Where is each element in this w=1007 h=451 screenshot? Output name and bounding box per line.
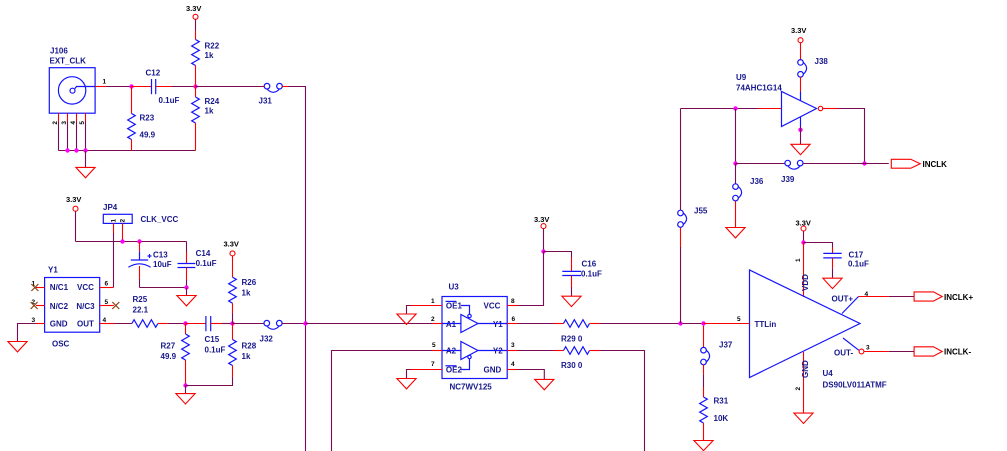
- ground (J36): [726, 228, 745, 238]
- buffer triangle 2: [461, 342, 478, 360]
- no-connect X pin1: [31, 284, 38, 291]
- svg-text:J36: J36: [750, 177, 764, 186]
- resistor R31 10K: [700, 387, 729, 441]
- svg-text:J32: J32: [260, 335, 274, 344]
- ground (OE2): [397, 379, 416, 389]
- node G junction (R25 out): [183, 321, 187, 325]
- svg-text:8: 8: [511, 298, 515, 305]
- svg-text:GND: GND: [484, 366, 502, 375]
- no-connect X pin2: [31, 302, 38, 309]
- power 3.3V (U9): [791, 26, 806, 60]
- svg-text:10K: 10K: [714, 414, 729, 423]
- svg-text:3: 3: [511, 342, 515, 349]
- svg-text:2: 2: [431, 316, 435, 323]
- svg-text:C17: C17: [849, 250, 864, 259]
- svg-text:R26: R26: [242, 278, 257, 287]
- svg-text:J37: J37: [719, 341, 733, 350]
- buffer U3 NC7WV125: [410, 283, 518, 392]
- pin U4 GND (pin2): [795, 352, 810, 413]
- svg-text:6: 6: [105, 281, 109, 288]
- node J junction: [678, 321, 682, 325]
- ground (U3 GND): [535, 379, 554, 389]
- power 3.3V (R26): [224, 240, 239, 256]
- wire left loop riser (node J up to J55): [680, 247, 682, 324]
- svg-text:1: 1: [103, 79, 107, 86]
- no-connect X pin5: [112, 302, 119, 309]
- svg-text:1k: 1k: [242, 288, 251, 297]
- wire A2 loop to bottom edge: [332, 351, 433, 451]
- oscillator Y1 OSC: [32, 266, 115, 349]
- pin stubs: [410, 305, 442, 307]
- jumper header JP4 CLK_VCC: [103, 203, 179, 242]
- svg-text:OUT+: OUT+: [832, 294, 854, 303]
- svg-text:R23: R23: [140, 114, 155, 123]
- ground (C13/C14): [177, 288, 196, 306]
- svg-text:GND: GND: [801, 360, 810, 378]
- svg-text:OUT-: OUT-: [834, 349, 853, 358]
- svg-text:6: 6: [512, 316, 516, 323]
- node P junction: [801, 240, 805, 244]
- svg-text:49.9: 49.9: [140, 131, 156, 140]
- ground (U4): [794, 413, 813, 423]
- output port INCLK: [891, 159, 947, 169]
- wire C13/C14 ground row: [140, 287, 187, 289]
- power 3.3V (R22): [186, 4, 201, 31]
- jumper J36: [733, 164, 764, 228]
- pin U4 TTLin (pin5): [704, 316, 750, 324]
- ground (U9): [791, 144, 810, 154]
- svg-text:U9: U9: [736, 73, 747, 82]
- wire R29 to node J/K: [600, 323, 704, 325]
- output port INCLK-: [889, 347, 972, 357]
- wire U9 input row: [681, 108, 759, 110]
- svg-text:5: 5: [737, 316, 741, 323]
- node junction JP4 pin2: [120, 239, 124, 243]
- svg-text:INCLK: INCLK: [923, 160, 948, 169]
- svg-text:VDD: VDD: [801, 274, 810, 291]
- wire U9 gnd pin: [800, 127, 802, 145]
- jumper J38: [798, 57, 829, 92]
- svg-text:INCLK-: INCLK-: [944, 348, 971, 357]
- node A junction: [129, 84, 133, 88]
- ground (R31): [694, 441, 713, 451]
- svg-text:NC7WV125: NC7WV125: [450, 383, 493, 392]
- wire OE2 to ground: [407, 370, 411, 379]
- resistor R26 1k: [229, 256, 257, 324]
- svg-text:C12: C12: [146, 69, 161, 78]
- svg-text:A2: A2: [446, 347, 457, 356]
- pin U4 OUT+ (pin4): [832, 291, 889, 314]
- jumper J37: [701, 326, 733, 365]
- svg-text:OE2: OE2: [446, 366, 463, 375]
- svg-text:J31: J31: [259, 97, 273, 106]
- power 3.3V (U3 VCC): [534, 215, 549, 252]
- svg-text:OUT: OUT: [77, 320, 94, 329]
- svg-text:EXT_CLK: EXT_CLK: [50, 57, 87, 66]
- jumper J32: [233, 320, 306, 343]
- resistor R23 49.9: [128, 87, 156, 151]
- resistor R28 1k: [229, 324, 257, 378]
- svg-text:3.3V: 3.3V: [791, 26, 806, 35]
- wire Y1 to R29: [518, 323, 554, 325]
- wire vertical x=305.5 below node C to bottom edge: [305, 324, 307, 451]
- ground (C17): [823, 278, 842, 288]
- svg-text:1k: 1k: [242, 352, 251, 361]
- svg-text:Y1: Y1: [493, 320, 503, 329]
- svg-text:4: 4: [865, 291, 869, 298]
- svg-text:74AHC1G14: 74AHC1G14: [736, 84, 782, 93]
- svg-text:2: 2: [795, 387, 802, 391]
- ground (BNC shield): [76, 151, 95, 178]
- svg-text:4: 4: [511, 361, 515, 368]
- node I junction (R27 bottom): [183, 383, 187, 387]
- node M junction: [733, 106, 737, 110]
- resistor R29 0: [554, 320, 600, 344]
- svg-text:R28: R28: [242, 342, 257, 351]
- svg-text:R29 0: R29 0: [561, 335, 583, 344]
- svg-text:GND: GND: [50, 320, 68, 329]
- capacitor C16 0.1uF: [544, 252, 603, 297]
- svg-text:1: 1: [795, 258, 802, 262]
- node B junction: [193, 84, 197, 88]
- connector J106 EXT_CLK (BNC): [49, 47, 106, 125]
- svg-text:R25: R25: [133, 295, 148, 304]
- wire R30 loop to bottom edge: [600, 351, 645, 451]
- capacitor C13 10uF (polarized): [128, 242, 171, 288]
- output port INCLK+: [889, 292, 974, 302]
- wire U9 output: [823, 109, 865, 164]
- wire J39 row left: [735, 109, 737, 164]
- pin U9 input: [758, 108, 782, 110]
- svg-text:1: 1: [111, 219, 118, 223]
- svg-text:3: 3: [866, 344, 870, 351]
- svg-text:VCC: VCC: [77, 283, 94, 292]
- svg-text:7: 7: [431, 361, 435, 368]
- node H junction: [230, 321, 234, 325]
- svg-text:R22: R22: [205, 42, 220, 51]
- pin U4 VDD (pin1): [795, 243, 810, 298]
- svg-text:U4: U4: [823, 369, 834, 378]
- node C junction (main clock): [303, 321, 307, 325]
- svg-text:OE1: OE1: [446, 301, 463, 310]
- svg-text:0.1uF: 0.1uF: [848, 259, 869, 268]
- svg-text:1: 1: [431, 298, 435, 305]
- wire J37 to R31: [703, 365, 705, 387]
- resistor R27 49.9: [161, 324, 190, 386]
- svg-text:C14: C14: [196, 249, 211, 258]
- wire J55 lower pin: [680, 227, 682, 247]
- node N junction: [862, 161, 866, 165]
- jumper J55: [678, 109, 708, 228]
- svg-text:U3: U3: [449, 283, 460, 292]
- driver U4 DS90LV011ATMF: [750, 270, 887, 390]
- node L junction (VCC branch): [541, 249, 545, 253]
- wire Y2 to R30: [518, 350, 554, 352]
- ground (Y1): [8, 342, 27, 352]
- svg-text:DS90LV011ATMF: DS90LV011ATMF: [823, 381, 887, 390]
- svg-text:2: 2: [120, 219, 127, 223]
- svg-text:1k: 1k: [205, 51, 214, 60]
- jumper J39: [736, 160, 889, 184]
- svg-text:3.3V: 3.3V: [66, 195, 81, 204]
- svg-text:0.1uF: 0.1uF: [196, 259, 217, 268]
- node junction C14 bottom: [184, 285, 188, 289]
- wire Y1 GND to ground: [18, 324, 37, 342]
- svg-text:3.3V: 3.3V: [224, 240, 239, 249]
- svg-text:CLK_VCC: CLK_VCC: [141, 215, 179, 224]
- svg-text:OSC: OSC: [52, 340, 70, 349]
- svg-text:R27: R27: [161, 342, 176, 351]
- svg-text:R30 0: R30 0: [561, 361, 583, 370]
- svg-text:N/C3: N/C3: [76, 302, 95, 311]
- pin U4 OUT- (pin3): [834, 338, 889, 358]
- ground (C16): [562, 296, 581, 306]
- svg-text:3.3V: 3.3V: [534, 215, 549, 224]
- svg-text:10uF: 10uF: [153, 260, 172, 269]
- wire J31 to vertical drop: [288, 87, 306, 324]
- svg-text:22.1: 22.1: [133, 305, 149, 314]
- svg-text:JP4: JP4: [103, 203, 118, 212]
- node K junction: [701, 321, 705, 325]
- svg-text:1k: 1k: [205, 107, 214, 116]
- wire JP4 pin1 to Y1 VCC: [113, 233, 115, 288]
- capacitor C17 0.1uF: [804, 243, 870, 279]
- wire R27 bottom to R28 bottom: [186, 378, 233, 386]
- svg-text:A1: A1: [446, 320, 457, 329]
- capacitor C14 0.1uF: [178, 242, 217, 288]
- svg-text:49.9: 49.9: [161, 352, 177, 361]
- inverter U9 74AHC1G14: [736, 73, 823, 127]
- wire BNC shield pins to ground bus: [59, 122, 196, 153]
- svg-text:Y1: Y1: [48, 266, 58, 275]
- wire GND pin4 to ground: [518, 370, 545, 380]
- svg-text:C15: C15: [205, 335, 220, 344]
- svg-text:J39: J39: [781, 175, 795, 184]
- wire C12 to node B: [172, 86, 196, 88]
- svg-text:VCC: VCC: [484, 301, 501, 310]
- node U9 gnd junction: [798, 128, 802, 132]
- buffer triangle 1: [461, 315, 478, 333]
- wire node C to U3 A1: [306, 323, 433, 325]
- resistor R22 1k: [192, 31, 220, 87]
- svg-text:INCLK+: INCLK+: [944, 293, 973, 302]
- capacitor C12 0.1uF: [132, 69, 180, 106]
- resistor R30 0: [554, 347, 600, 370]
- svg-text:J38: J38: [815, 57, 829, 66]
- svg-text:0.1uF: 0.1uF: [205, 345, 226, 354]
- jumper J31: [196, 83, 289, 105]
- svg-text:TTLin: TTLin: [755, 320, 777, 329]
- svg-text:Y2: Y2: [493, 347, 503, 356]
- ground (R27): [176, 386, 195, 405]
- power 3.3V (U4): [796, 219, 811, 243]
- wire C15 to node H: [222, 323, 233, 325]
- svg-text:3.3V: 3.3V: [186, 4, 201, 13]
- capacitor C15 0.1uF: [186, 316, 226, 354]
- svg-text:0.1uF: 0.1uF: [581, 269, 602, 278]
- wire OE1 to ground: [407, 306, 411, 315]
- svg-text:N/C1: N/C1: [50, 283, 69, 292]
- svg-text:C16: C16: [582, 260, 597, 269]
- wire VCC pin8 riser: [518, 252, 544, 306]
- node O junction: [733, 161, 737, 165]
- svg-text:5: 5: [105, 299, 109, 306]
- svg-text:C13: C13: [153, 251, 168, 260]
- svg-text:5: 5: [432, 342, 436, 349]
- power 3.3V (CLK_VCC): [66, 195, 187, 242]
- resistor R25 22.1: [114, 295, 186, 327]
- wire BNC pin1 to node A: [106, 86, 132, 88]
- svg-text:0.1uF: 0.1uF: [159, 96, 180, 105]
- svg-text:R24: R24: [205, 97, 220, 106]
- ground (OE1): [397, 314, 416, 324]
- svg-text:J106: J106: [50, 47, 68, 56]
- svg-text:J55: J55: [694, 207, 708, 216]
- resistor R24 1k: [192, 87, 220, 151]
- svg-text:N/C2: N/C2: [50, 302, 69, 311]
- node junction C13 top: [137, 239, 141, 243]
- svg-text:R31: R31: [714, 397, 729, 406]
